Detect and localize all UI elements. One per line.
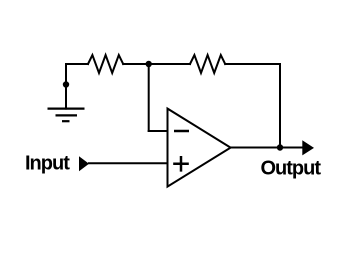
output arrow: [302, 140, 314, 155]
wire: between R1 and node B: [123, 63, 190, 65]
op-amp plus label: [173, 156, 189, 172]
wire: input to op-amp non-inverting: [89, 162, 168, 164]
svg-text:Input: Input: [25, 152, 70, 174]
node B (feedback tap): [146, 61, 152, 67]
op-amp U1: [168, 109, 231, 187]
resistor R1: [88, 55, 123, 73]
input arrow: [79, 156, 89, 171]
wire: R2 to top-right corner: [225, 63, 280, 65]
op-amp minus label: [174, 130, 189, 133]
node C (output junction): [277, 144, 283, 150]
resistor R2: [190, 55, 225, 73]
svg-text:Output: Output: [261, 157, 322, 179]
ground: [48, 109, 85, 122]
wire: right vertical feedback drop: [279, 64, 281, 148]
node A (ground branch): [63, 81, 69, 87]
wire: feedback horizontal to op-amp: [149, 130, 168, 132]
wire: feedback vertical into inverting input: [148, 64, 150, 131]
wire: left vertical to ground: [65, 64, 67, 109]
wire: top-left horizontal lead: [66, 63, 88, 65]
wire: op-amp output to output node: [231, 147, 303, 149]
